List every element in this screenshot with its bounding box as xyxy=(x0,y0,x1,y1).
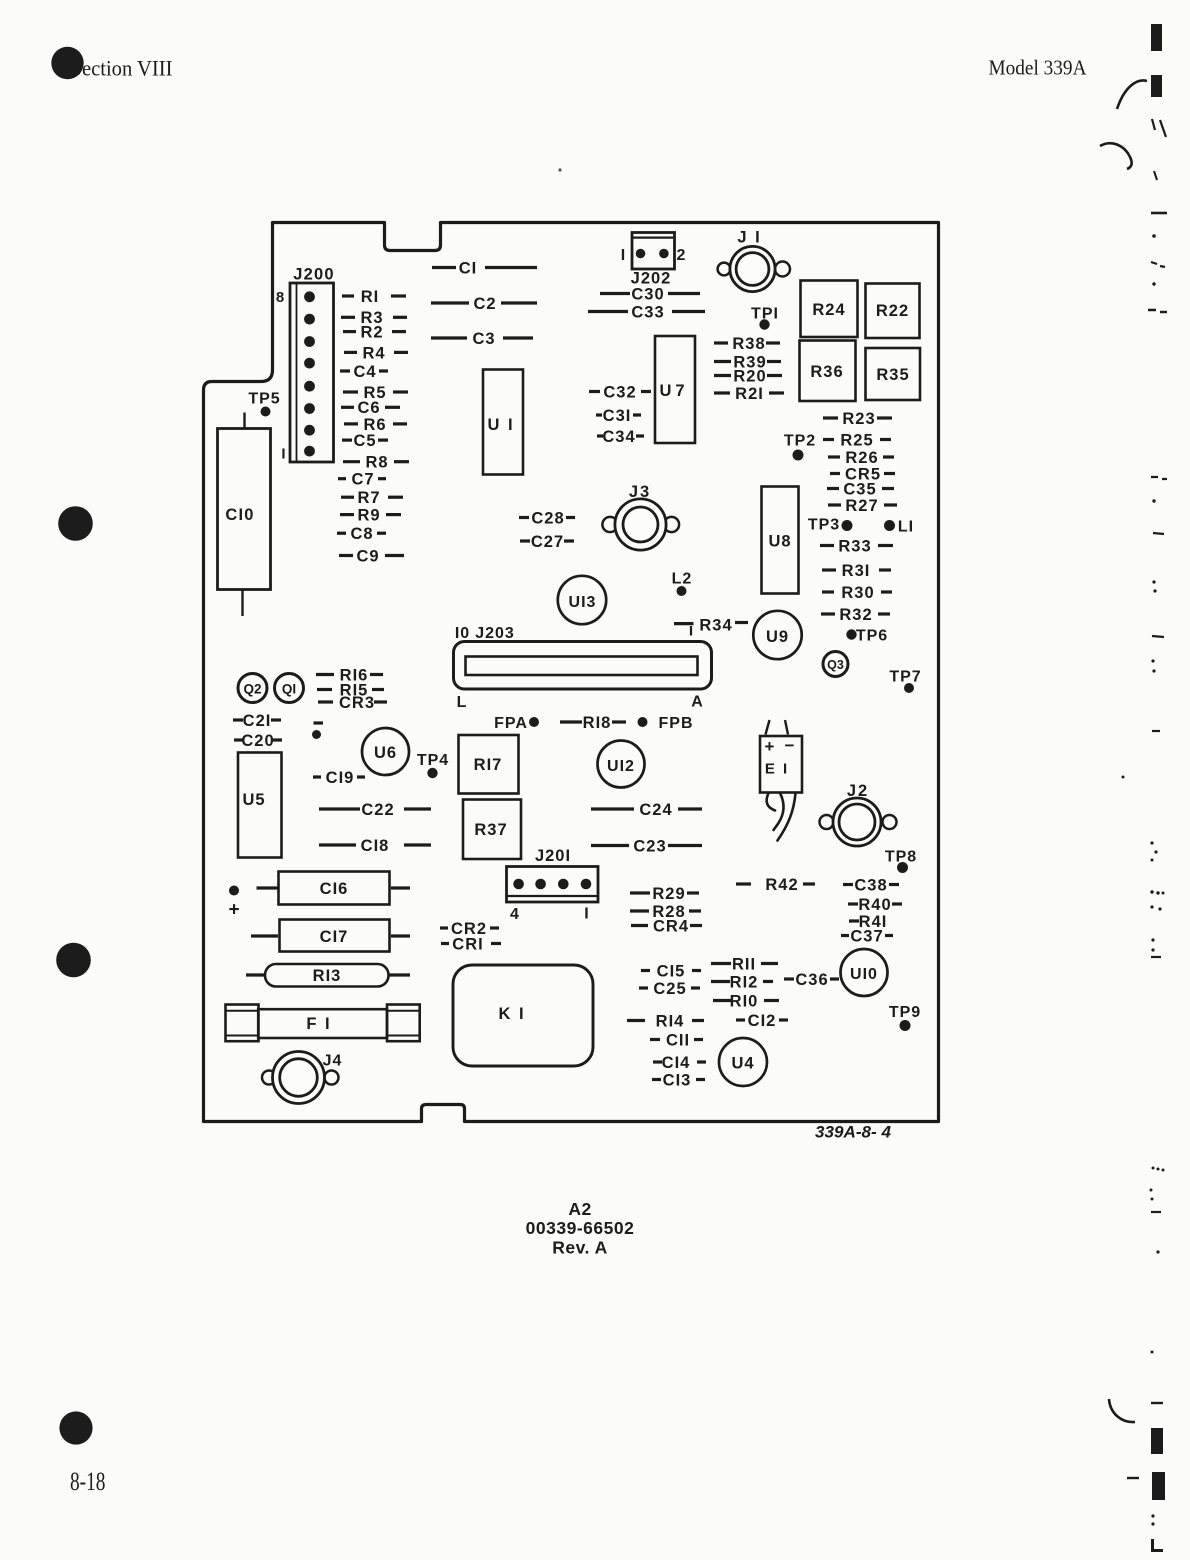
svg-text:LI: LI xyxy=(898,518,914,535)
svg-text:J200: J200 xyxy=(293,265,335,283)
svg-text:C20: C20 xyxy=(241,732,274,750)
svg-text:C36: C36 xyxy=(795,971,828,989)
svg-text:RI3: RI3 xyxy=(313,967,342,985)
svg-text:R22: R22 xyxy=(876,302,909,320)
svg-text:R24: R24 xyxy=(812,301,845,319)
svg-text:RI8: RI8 xyxy=(583,714,612,732)
svg-text:C23: C23 xyxy=(633,837,666,855)
svg-text:I: I xyxy=(584,905,589,922)
svg-text:F I: F I xyxy=(306,1015,331,1033)
svg-text:C3I: C3I xyxy=(603,407,632,425)
svg-text:CI6: CI6 xyxy=(320,880,349,898)
svg-text:I: I xyxy=(621,247,626,264)
svg-text:CI: CI xyxy=(459,259,478,277)
svg-text:R33: R33 xyxy=(838,537,871,555)
svg-text:CI7: CI7 xyxy=(320,928,349,946)
svg-text:FPB: FPB xyxy=(659,715,694,732)
svg-text:R8: R8 xyxy=(365,454,388,472)
svg-text:TP5: TP5 xyxy=(248,390,280,407)
svg-text:CI5: CI5 xyxy=(657,962,686,980)
svg-text:R40: R40 xyxy=(858,896,891,914)
svg-text:TP3: TP3 xyxy=(808,516,840,533)
svg-text:TP4: TP4 xyxy=(417,752,449,769)
svg-text:C3: C3 xyxy=(472,330,495,348)
svg-text:Q2: Q2 xyxy=(243,681,261,696)
svg-text:FPA: FPA xyxy=(494,715,528,732)
svg-text:C2I: C2I xyxy=(243,712,272,730)
svg-text:R32: R32 xyxy=(839,606,872,624)
svg-text:L2: L2 xyxy=(672,570,693,587)
svg-text:CI8: CI8 xyxy=(361,837,390,855)
svg-text:CR4: CR4 xyxy=(653,917,689,935)
svg-text:U9: U9 xyxy=(766,628,789,646)
svg-text:U8: U8 xyxy=(768,532,791,550)
svg-text:J I: J I xyxy=(737,228,761,246)
svg-text:C38: C38 xyxy=(854,876,887,894)
svg-text:TP7: TP7 xyxy=(889,668,921,685)
svg-text:8-18: 8-18 xyxy=(70,1467,106,1496)
svg-text:R35: R35 xyxy=(876,366,909,384)
svg-text:R7: R7 xyxy=(357,489,380,507)
svg-text:C25: C25 xyxy=(653,980,686,998)
svg-text:R23: R23 xyxy=(842,410,875,428)
svg-text:R3I: R3I xyxy=(842,562,871,580)
svg-text:C34: C34 xyxy=(602,428,635,446)
svg-text:J4: J4 xyxy=(323,1052,343,1069)
svg-text:R27: R27 xyxy=(845,497,878,515)
svg-text:CI0: CI0 xyxy=(225,506,254,524)
svg-text:UI3: UI3 xyxy=(569,594,597,611)
svg-text:RI0: RI0 xyxy=(730,992,759,1010)
svg-text:R37: R37 xyxy=(474,821,507,839)
svg-text:8: 8 xyxy=(276,289,285,306)
svg-text:I: I xyxy=(281,445,286,462)
svg-text:C37: C37 xyxy=(850,927,883,945)
svg-text:RI2: RI2 xyxy=(730,973,759,991)
svg-text:J2: J2 xyxy=(847,782,869,800)
svg-text:Section VIII: Section VIII xyxy=(71,56,173,81)
svg-text:C6: C6 xyxy=(357,399,380,417)
svg-text:C4: C4 xyxy=(353,363,376,381)
svg-text:2: 2 xyxy=(677,247,687,264)
svg-text:RI: RI xyxy=(361,288,380,306)
svg-text:C5: C5 xyxy=(353,432,376,450)
svg-text:C35: C35 xyxy=(843,480,876,498)
svg-text:C30: C30 xyxy=(631,285,664,303)
svg-text:CI9: CI9 xyxy=(326,769,355,787)
svg-text:J20I: J20I xyxy=(535,847,571,865)
svg-text:UI0: UI0 xyxy=(850,966,878,983)
svg-text:R29: R29 xyxy=(652,885,685,903)
svg-text:C2: C2 xyxy=(473,295,496,313)
svg-text:Model 339A: Model 339A xyxy=(989,56,1087,80)
svg-text:CII: CII xyxy=(666,1031,690,1049)
svg-text:J3: J3 xyxy=(629,483,651,501)
svg-text:C9: C9 xyxy=(356,547,379,565)
svg-text:C8: C8 xyxy=(350,525,373,543)
svg-text:A: A xyxy=(691,693,704,710)
svg-text:I0: I0 xyxy=(455,625,470,642)
svg-text:TP9: TP9 xyxy=(889,1004,921,1021)
svg-text:U4: U4 xyxy=(731,1054,754,1072)
svg-text:R38: R38 xyxy=(732,335,765,353)
svg-text:R34: R34 xyxy=(699,616,732,634)
svg-text:RII: RII xyxy=(732,955,756,973)
svg-text:U7: U7 xyxy=(659,382,688,400)
svg-text:C22: C22 xyxy=(361,801,394,819)
svg-text:CI2: CI2 xyxy=(748,1012,777,1030)
svg-text:R4: R4 xyxy=(362,344,385,362)
svg-text:−: − xyxy=(785,736,796,755)
svg-text:RI7: RI7 xyxy=(474,756,503,774)
svg-text:A2: A2 xyxy=(568,1199,591,1219)
svg-text:R20: R20 xyxy=(733,367,766,385)
svg-text:R26: R26 xyxy=(845,449,878,467)
svg-text:CRI: CRI xyxy=(452,935,483,953)
svg-text:U5: U5 xyxy=(242,791,265,809)
svg-text:C24: C24 xyxy=(639,801,672,819)
svg-text:U6: U6 xyxy=(374,744,397,762)
svg-text:C7: C7 xyxy=(351,471,374,489)
svg-text:R2I: R2I xyxy=(735,385,764,403)
svg-text:4: 4 xyxy=(510,906,520,923)
svg-text:RI4: RI4 xyxy=(656,1012,685,1030)
svg-text:Rev. A: Rev. A xyxy=(552,1237,608,1257)
svg-text:R42: R42 xyxy=(765,876,798,894)
svg-text:L: L xyxy=(457,694,468,711)
svg-text:R25: R25 xyxy=(840,431,873,449)
svg-text:+: + xyxy=(228,899,240,920)
svg-text:C28: C28 xyxy=(531,509,564,527)
svg-text:00339-66502: 00339-66502 xyxy=(526,1218,635,1238)
svg-text:U I: U I xyxy=(487,416,514,434)
svg-text:C32: C32 xyxy=(603,383,636,401)
svg-text:TP2: TP2 xyxy=(784,432,816,449)
svg-text:CR3: CR3 xyxy=(339,694,375,712)
svg-text:Q3: Q3 xyxy=(827,658,844,672)
svg-text:J203: J203 xyxy=(475,625,515,642)
svg-text:R30: R30 xyxy=(841,584,874,602)
svg-text:K I: K I xyxy=(498,1005,525,1023)
svg-text:QI: QI xyxy=(282,681,296,696)
svg-text:CI4: CI4 xyxy=(662,1054,691,1072)
svg-text:E I: E I xyxy=(765,760,789,777)
svg-text:+: + xyxy=(765,737,776,756)
svg-text:339A-8- 4: 339A-8- 4 xyxy=(815,1124,891,1142)
svg-text:R2: R2 xyxy=(360,324,383,342)
svg-text:C33: C33 xyxy=(631,303,664,321)
svg-text:TP6: TP6 xyxy=(856,627,888,644)
svg-text:CI3: CI3 xyxy=(663,1071,692,1089)
svg-text:R36: R36 xyxy=(810,363,843,381)
svg-text:UI2: UI2 xyxy=(607,758,635,775)
svg-text:C27: C27 xyxy=(531,533,564,551)
svg-text:R9: R9 xyxy=(357,507,380,525)
